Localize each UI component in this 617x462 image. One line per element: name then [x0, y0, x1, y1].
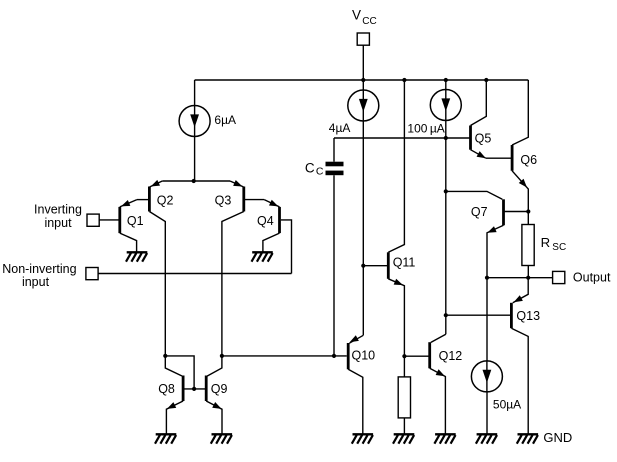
svg-text:Q1: Q1	[127, 214, 144, 228]
svg-text:GND: GND	[543, 430, 572, 445]
svg-text:input: input	[44, 216, 72, 230]
svg-text:Non-inverting: Non-inverting	[2, 262, 76, 276]
svg-text:Q5: Q5	[475, 132, 492, 146]
svg-text:50µA: 50µA	[493, 397, 521, 411]
svg-text:Q2: Q2	[157, 194, 174, 208]
svg-text:Q13: Q13	[516, 309, 540, 323]
svg-text:Q3: Q3	[215, 194, 232, 208]
svg-text:Q10: Q10	[352, 348, 376, 362]
svg-text:C: C	[316, 166, 324, 178]
svg-text:CC: CC	[362, 16, 376, 27]
svg-text:input: input	[22, 275, 50, 289]
svg-text:Inverting: Inverting	[34, 203, 82, 217]
svg-text:Q6: Q6	[520, 153, 537, 167]
svg-text:Q11: Q11	[393, 255, 416, 269]
svg-text:R: R	[541, 235, 551, 250]
svg-text:SC: SC	[552, 242, 566, 253]
svg-text:6µA: 6µA	[214, 113, 236, 127]
svg-text:100 µA: 100 µA	[407, 121, 444, 135]
svg-text:Q4: Q4	[257, 214, 274, 228]
svg-text:4µA: 4µA	[329, 121, 351, 135]
svg-text:Output: Output	[573, 271, 611, 285]
svg-text:Q7: Q7	[471, 205, 488, 219]
svg-text:Q9: Q9	[211, 382, 228, 396]
svg-text:V: V	[352, 7, 361, 22]
svg-text:Q12: Q12	[439, 349, 463, 363]
svg-text:C: C	[305, 160, 315, 175]
svg-text:Q8: Q8	[158, 382, 175, 396]
